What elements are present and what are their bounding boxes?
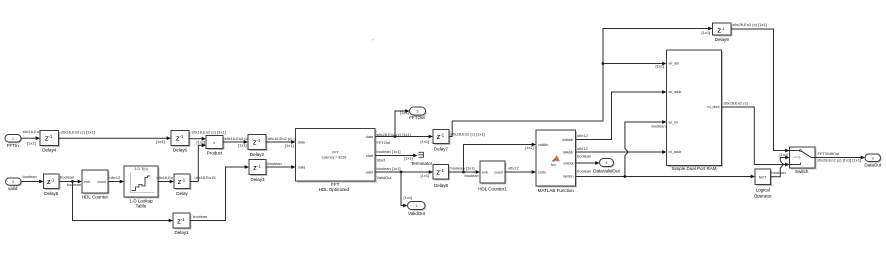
svg-text:enb: enb: [482, 170, 488, 174]
svg-text:x: x: [213, 141, 215, 145]
delay Delay: [174, 174, 191, 196]
svg-text:FFTIn: FFTIn: [7, 143, 19, 148]
svg-text:[1x1]: [1x1]: [421, 139, 430, 144]
svg-text:Delay8: Delay8: [434, 183, 449, 188]
svg-text:boolean: boolean: [772, 170, 786, 175]
outport 3 DataOut: [864, 154, 882, 168]
svg-text:vldOut: vldOut: [563, 161, 573, 165]
wire branch to ValidOut port: [401, 172, 412, 207]
switch Switch: [790, 147, 817, 174]
svg-text:sfix28,En2 (c) [1x1]: sfix28,En2 (c) [1x1]: [451, 132, 485, 137]
svg-text:HDL Counter1: HDL Counter1: [478, 186, 507, 191]
svg-text:rd_dout: rd_dout: [707, 105, 719, 109]
outport 1 ValidOut: [408, 202, 427, 216]
wire Delay7 to Delay9 and RAM wr_din: [449, 27, 713, 137]
svg-text:[1x1]: [1x1]: [27, 140, 36, 145]
svg-text:2: 2: [12, 180, 14, 184]
wire branch to RAM wr_din: [603, 62, 667, 69]
delay Delay1: [173, 213, 191, 235]
svg-text:Delay2: Delay2: [250, 152, 265, 157]
svg-text:count: count: [97, 180, 106, 184]
wire Delay1 to Delay3: [190, 165, 249, 220]
svg-text:Delay3: Delay3: [250, 177, 265, 182]
svg-text:ValidOut: ValidOut: [408, 211, 426, 216]
svg-text:Delay5: Delay5: [44, 191, 59, 196]
svg-text:boolean: boolean: [60, 175, 74, 180]
delay Delay9: [713, 23, 733, 42]
svg-text:MATLAB Function: MATLAB Function: [538, 188, 575, 193]
terminator Terminator: [411, 152, 433, 166]
wire valid to Delay5: [21, 174, 44, 184]
svg-text:FFTShiftOut: FFTShiftOut: [818, 151, 841, 156]
wire Delay6 to Product in1: [189, 130, 226, 145]
wire HDL Counter to 1-D Lookup Table: [108, 175, 124, 184]
wire FFT valid to Delay8: [375, 166, 433, 180]
wire branch to FFTOut port: [395, 109, 410, 136]
svg-text:boolean: boolean: [23, 174, 37, 179]
svg-text:boolean [1x1]: boolean [1x1]: [451, 165, 475, 170]
wire branch ramEn to RAM wr_en: [625, 120, 667, 176]
svg-text:wr_en: wr_en: [669, 121, 679, 125]
svg-text:boolean [1x1]: boolean [1x1]: [377, 149, 401, 154]
wire Delay4 to Delay6: [59, 130, 172, 145]
wire Product to Delay2: [223, 136, 250, 148]
1-D Lookup Table: [124, 166, 159, 208]
svg-text:boolean: boolean: [193, 214, 207, 219]
svg-text:4: 4: [606, 161, 608, 165]
svg-text:validIn: validIn: [538, 143, 548, 147]
svg-text:[1x1]: [1x1]: [656, 64, 665, 69]
svg-text:DataOut: DataOut: [864, 163, 882, 168]
svg-text:HDL Optimized: HDL Optimized: [319, 187, 350, 192]
wire FFTIn to Delay4: [21, 129, 42, 145]
svg-text:[1x1]: [1x1]: [702, 30, 711, 35]
svg-text:1: 1: [415, 204, 417, 208]
wire Delay5 to HDL Counter enb: [59, 175, 82, 188]
delay Delay4: [40, 131, 60, 153]
Simple Dual Port RAM: [667, 50, 723, 171]
wire Delay9 to Switch in1: [731, 22, 790, 157]
wire NOT to Switch in2: [771, 156, 790, 177]
svg-text:cntIn: cntIn: [538, 170, 546, 174]
logical operator NOT: [754, 169, 772, 198]
outport 2 FFTOut: [409, 107, 426, 120]
FFT HDL Optimized block: [296, 129, 377, 192]
svg-text:FFT: FFT: [332, 150, 339, 154]
stray annotation dot: [372, 39, 374, 41]
svg-text:Simple Dual Port RAM: Simple Dual Port RAM: [671, 166, 716, 171]
svg-text:[1x1]: [1x1]: [400, 110, 409, 115]
svg-text:boolean: boolean: [577, 168, 591, 173]
svg-text:valid: valid: [298, 165, 305, 169]
svg-text:wrAddr: wrAddr: [562, 138, 574, 142]
wire Switch to DataOut: [815, 151, 865, 162]
svg-text:sfix28,En2 (c) [1x1]: sfix28,En2 (c) [1x1]: [733, 22, 767, 27]
inport 1 FFTIn: [5, 135, 22, 148]
svg-text:[1x1]: [1x1]: [525, 145, 534, 150]
svg-text:~= 0: ~= 0: [793, 155, 800, 159]
svg-text:boolean: boolean: [652, 123, 666, 128]
MATLAB Function block: [536, 130, 577, 193]
svg-text:boolean: boolean: [67, 182, 81, 187]
svg-text:ufix12: ufix12: [508, 166, 519, 171]
svg-text:[1x1]: [1x1]: [404, 195, 413, 200]
wire FFT start to Terminator: [375, 149, 418, 162]
svg-text:2: 2: [417, 110, 419, 114]
svg-text:FFTOut: FFTOut: [409, 115, 425, 120]
wire branch to MATLAB Function validIn: [464, 143, 537, 172]
svg-text:sfix16,En2 (c) [1x1]: sfix16,En2 (c) [1x1]: [192, 130, 226, 135]
svg-text:Terminator: Terminator: [411, 161, 433, 166]
delay Delay3: [249, 160, 267, 183]
svg-text:Delay1: Delay1: [174, 230, 189, 235]
svg-text:ufix12: ufix12: [577, 146, 588, 151]
svg-text:boolean: boolean: [268, 161, 282, 166]
svg-text:Delay9: Delay9: [715, 37, 730, 42]
product Product: [206, 136, 224, 156]
svg-text:1-D T(u): 1-D T(u): [134, 167, 147, 171]
svg-text:boolean [1x1]: boolean [1x1]: [377, 166, 401, 171]
inport 2 valid: [6, 178, 23, 191]
svg-text:ramEn: ramEn: [563, 175, 574, 179]
delay Delay6: [171, 131, 190, 153]
svg-text:data: data: [298, 140, 305, 144]
svg-text:Switch: Switch: [795, 169, 809, 174]
svg-text:ufix12: ufix12: [577, 133, 588, 138]
wire wrAddr to RAM wr_addr: [576, 90, 667, 139]
svg-text:ufix12: ufix12: [110, 175, 121, 180]
svg-text:sfix16,En2 (c) [1x1]: sfix16,En2 (c) [1x1]: [61, 130, 95, 135]
svg-text:boolean: boolean: [465, 173, 479, 178]
wire vldOut to DataValidOut port: [576, 153, 600, 165]
delay Delay7: [433, 130, 450, 152]
svg-text:[1x1]: [1x1]: [780, 152, 789, 157]
svg-text:[1x1]: [1x1]: [285, 143, 294, 148]
svg-text:sfix28,En2 (c) [1x1] [1x1]: sfix28,En2 (c) [1x1] [1x1]: [817, 157, 861, 162]
svg-text:valid: valid: [366, 170, 373, 174]
delay Delay2: [248, 135, 267, 157]
wire FFT data out to Delay7: [375, 132, 433, 145]
svg-text:3: 3: [872, 156, 874, 160]
svg-text:wr_addr: wr_addr: [669, 90, 683, 94]
wire HDL Counter1 to cntIn: [505, 166, 536, 174]
svg-text:Delay7: Delay7: [434, 146, 449, 151]
svg-text:count: count: [495, 170, 504, 174]
MATLAB logo: [552, 158, 556, 162]
svg-text:[1x1]: [1x1]: [197, 140, 206, 145]
svg-text:Latency = 8238: Latency = 8238: [322, 155, 347, 159]
svg-text:1: 1: [12, 137, 14, 141]
svg-text:Operator: Operator: [754, 193, 772, 198]
HDL Counter: [82, 170, 109, 200]
svg-text:fcn: fcn: [551, 163, 556, 167]
wire ramEn to Logical Operator: [576, 168, 756, 178]
svg-text:valid: valid: [8, 186, 18, 191]
svg-text:[1x1]: [1x1]: [421, 173, 430, 178]
svg-text:Delay: Delay: [176, 191, 188, 196]
wire Lookup to Delay: [157, 175, 179, 183]
svg-text:data: data: [366, 135, 373, 139]
svg-text:[1x1]: [1x1]: [404, 155, 413, 160]
svg-text:Delay4: Delay4: [42, 147, 57, 152]
delay Delay5: [44, 174, 61, 196]
wire rdAddr to RAM rd_addr: [576, 146, 667, 154]
svg-text:NOT: NOT: [759, 175, 767, 179]
svg-text:Start: Start: [377, 158, 386, 163]
svg-text:Table: Table: [136, 203, 147, 208]
svg-text:enb: enb: [84, 180, 90, 184]
delay Delay8: [433, 165, 450, 188]
svg-text:rd_addr: rd_addr: [669, 150, 682, 154]
svg-text:start: start: [366, 154, 373, 158]
svg-text:wr_din: wr_din: [669, 62, 680, 66]
outport 4 DataValidOut: [593, 159, 620, 174]
svg-text:sfix28,En2 (c) [1x1]: sfix28,En2 (c) [1x1]: [377, 132, 411, 137]
wire Delay2 to FFT data: [266, 136, 302, 148]
svg-text:DataValidOut: DataValidOut: [593, 168, 620, 173]
svg-text:sfix28,En2 (c): sfix28,En2 (c): [724, 100, 749, 105]
svg-text:FFTOut: FFTOut: [377, 140, 392, 145]
wire RAM rd_dout to Switch in3: [722, 100, 790, 166]
svg-text:Delay6: Delay6: [173, 147, 188, 152]
wire branch valid to Delay1: [73, 182, 174, 223]
svg-text:ValidOut: ValidOut: [377, 175, 393, 180]
svg-text:rdAddr: rdAddr: [563, 150, 575, 154]
svg-text:Logical: Logical: [756, 187, 770, 192]
svg-text:[1x1]: [1x1]: [238, 143, 247, 148]
svg-text:[1x1]: [1x1]: [156, 139, 165, 144]
svg-text:sfix16,En2: sfix16,En2: [23, 129, 42, 134]
wire Delay to Product in2: [190, 143, 216, 181]
wire Delay3 to FFT valid: [266, 161, 296, 169]
svg-text:ufix16,En15: ufix16,En15: [195, 175, 217, 180]
svg-text:boolean: boolean: [577, 153, 591, 158]
svg-text:Product: Product: [207, 150, 223, 155]
svg-text:sfix16,En2 (c): sfix16,En2 (c): [225, 136, 250, 141]
HDL Counter1: [478, 161, 507, 191]
svg-text:HDL Counter: HDL Counter: [82, 195, 109, 200]
wire Delay8 to HDL Counter1 enb: [449, 165, 481, 178]
